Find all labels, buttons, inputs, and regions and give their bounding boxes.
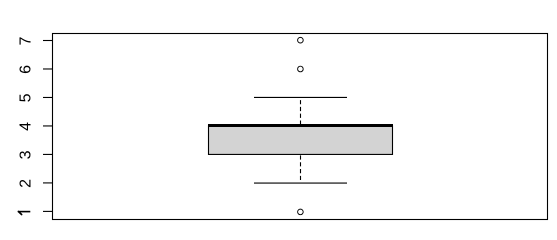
median line at 4 (208, 124, 393, 127)
svg-text:6: 6 (17, 65, 34, 74)
lower whisker dashed line (300, 154, 302, 182)
outlier at 7 (298, 37, 304, 43)
y-axis tick 5 (43, 96, 53, 98)
svg-text:5: 5 (17, 93, 34, 102)
y-axis tick 7 (43, 40, 53, 42)
svg-text:3: 3 (17, 150, 34, 159)
lower whisker staple at 2 (254, 182, 347, 184)
plot frame (53, 34, 548, 220)
y-axis tick 1 (43, 210, 53, 212)
upper whisker staple at 5 (254, 96, 347, 98)
svg-text:7: 7 (17, 36, 34, 45)
box (IQR 3 to 4) (209, 126, 393, 154)
y-axis tick 6 (43, 68, 53, 70)
y-axis tick 4 (43, 125, 53, 127)
y-axis label 1 (18, 211, 30, 215)
svg-text:4: 4 (17, 122, 34, 131)
outlier at 6 (298, 66, 304, 72)
svg-text:2: 2 (17, 179, 34, 188)
y-axis tick 2 (43, 182, 53, 184)
outlier at 1 (298, 209, 304, 215)
upper whisker dashed line (300, 97, 302, 125)
y-axis tick 3 (43, 153, 53, 155)
